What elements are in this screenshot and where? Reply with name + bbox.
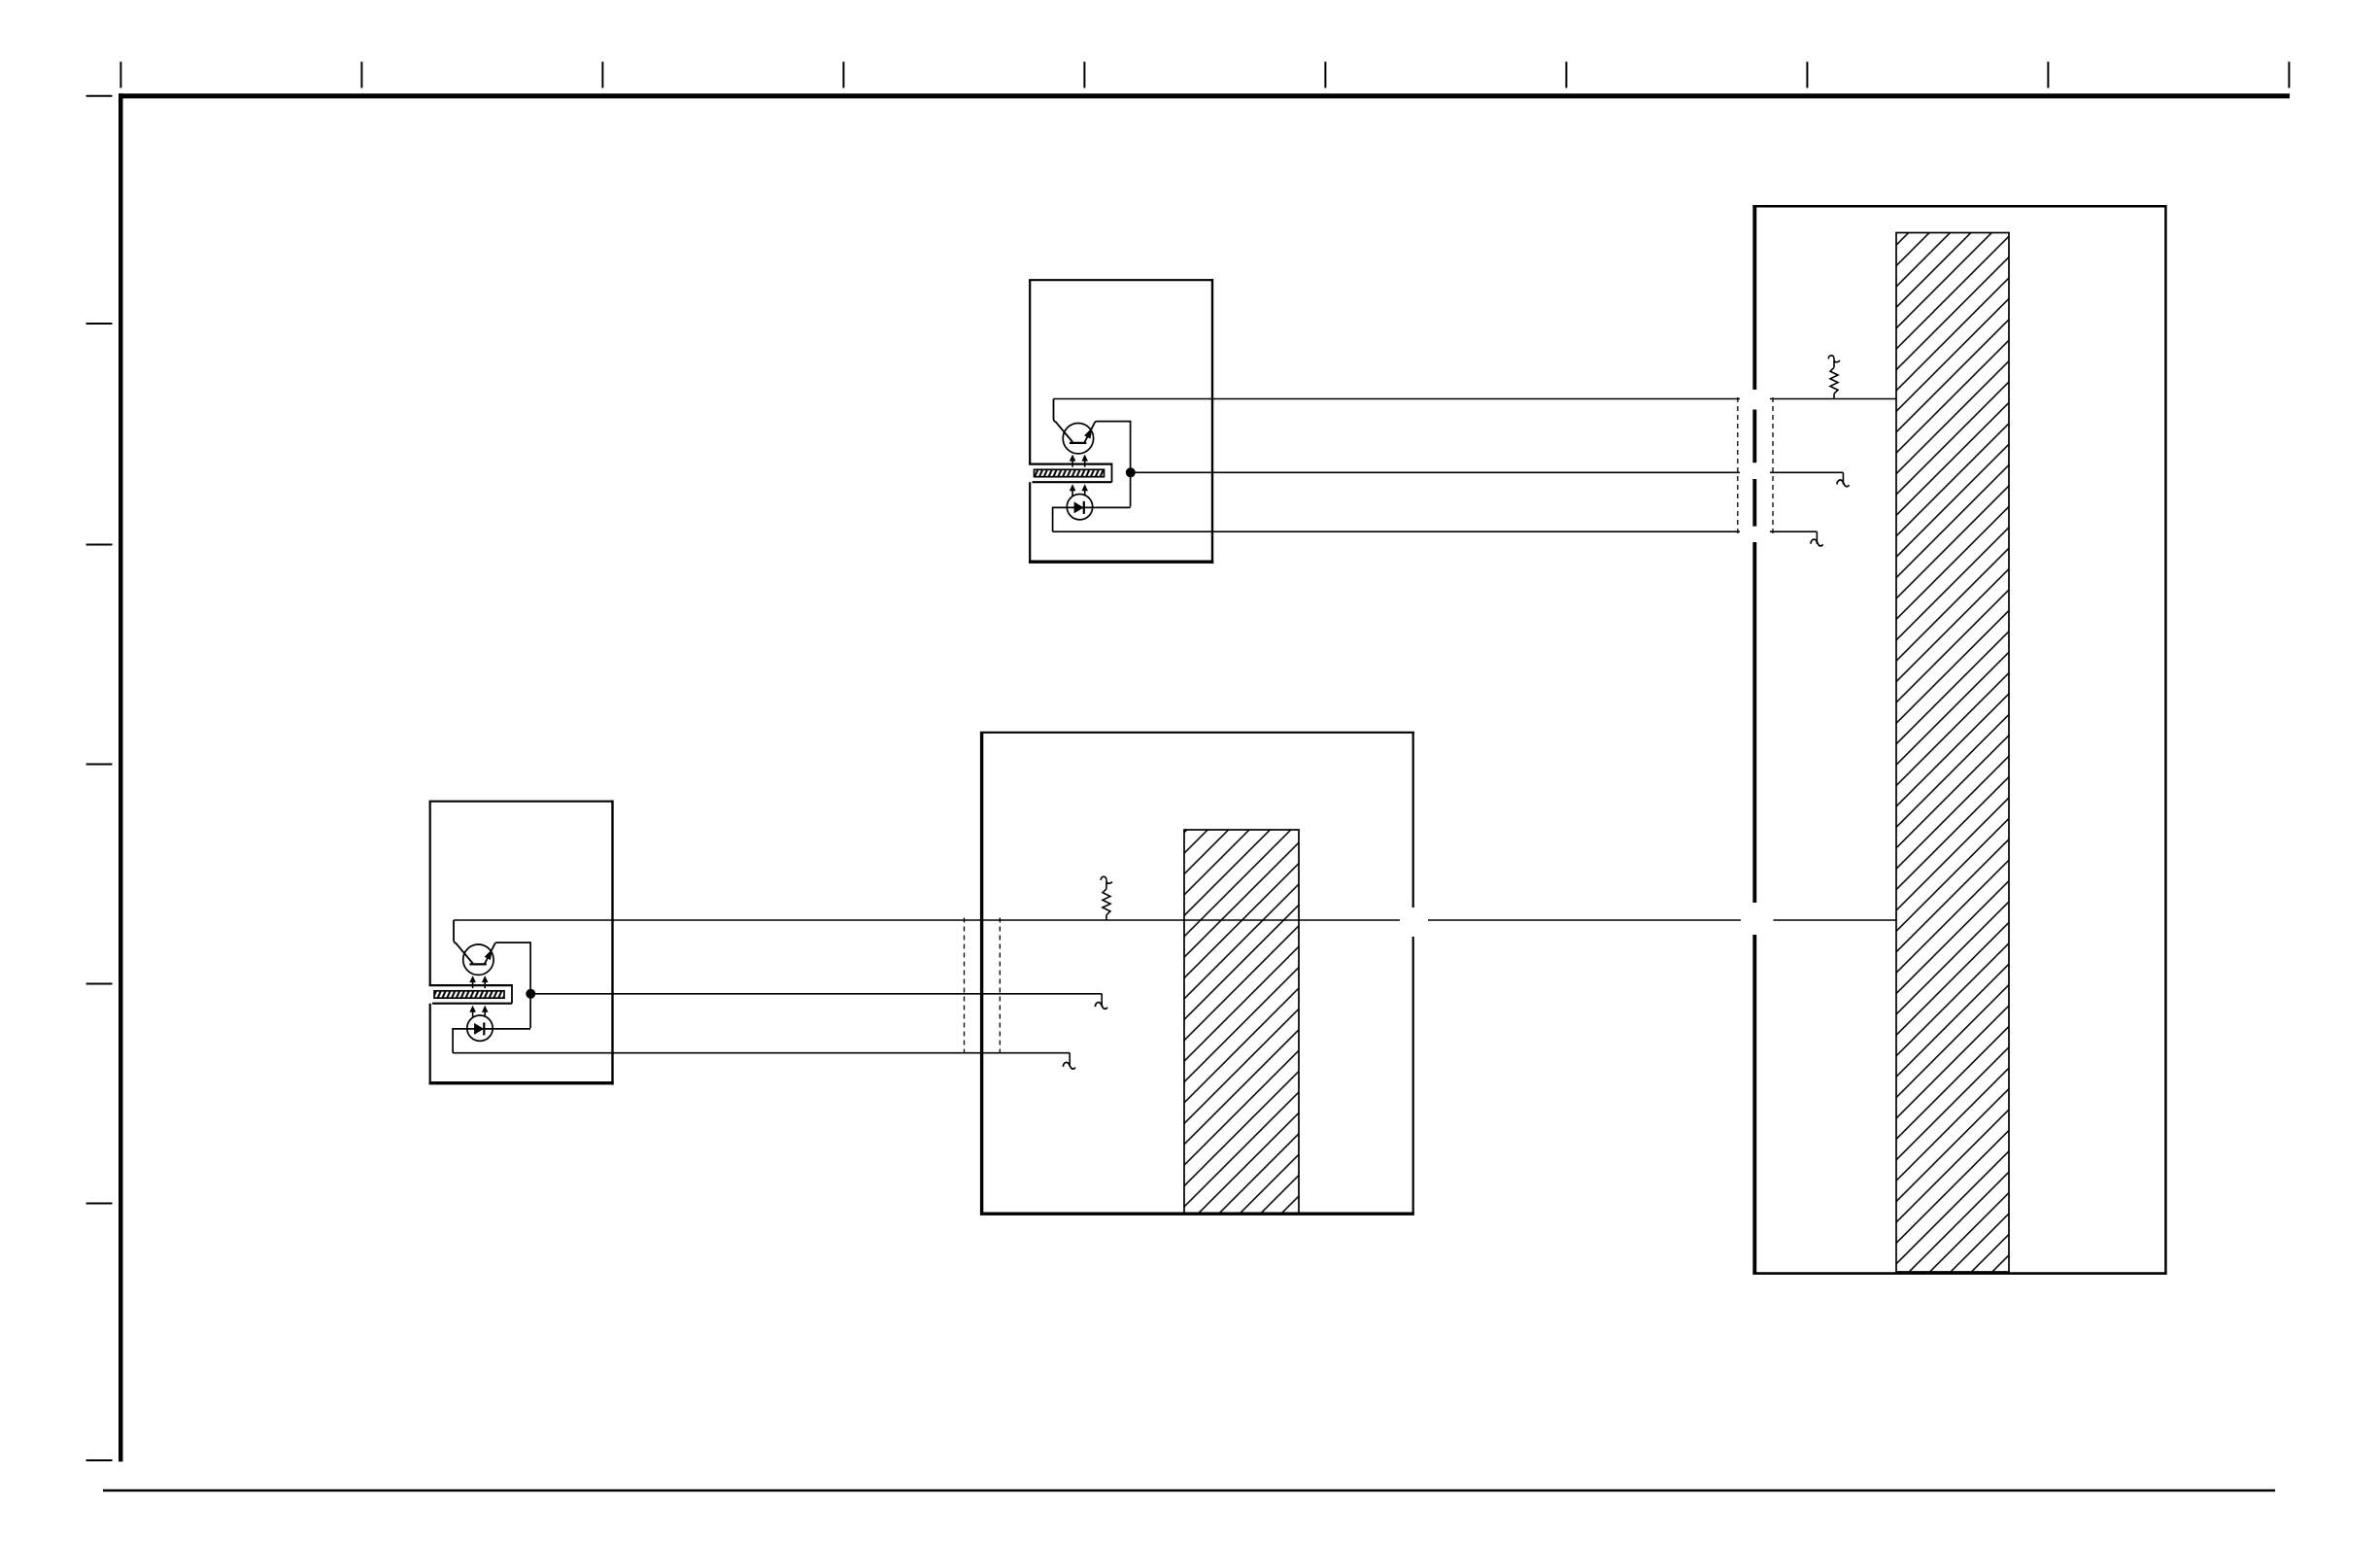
hatched bar inside middle board xyxy=(1184,830,1299,1214)
connector (dashed) at right board left edge xyxy=(1738,397,1773,535)
middle board outline xyxy=(980,732,1414,1216)
shutter slit bar of PH1 (hatched) xyxy=(1035,469,1105,476)
phototransistor of PH2 xyxy=(454,920,495,975)
right board outline xyxy=(1752,206,2166,1275)
wire: PH2 common node into middle board, open end xyxy=(530,994,1107,1010)
LED of PH2 xyxy=(453,1015,530,1041)
resistor on collector wire (right board) xyxy=(1828,356,1840,399)
wire: PH1 common node into right board, open end xyxy=(1131,472,1850,486)
emitter-to-node wire inside PH1 xyxy=(1095,422,1130,507)
light arrows onto phototransistor (PH1) xyxy=(1070,455,1088,467)
wire: PH1 collector to right board xyxy=(1054,398,1897,400)
photo-interrupter PH1 housing outline xyxy=(1029,279,1213,564)
photo-interrupter PH2 housing outline xyxy=(429,801,614,1085)
LED anode lead inside PH1 xyxy=(1052,507,1054,532)
LED anode lead inside PH2 xyxy=(452,1028,454,1053)
wire: PH1 LED anode into right board, open end xyxy=(1053,531,1823,546)
wire: PH2 LED anode into middle board, open end xyxy=(453,1053,1075,1069)
emitter-to-node wire inside PH2 xyxy=(495,942,530,1028)
junction node of PH1 xyxy=(1126,467,1136,477)
hatched bar inside right board xyxy=(1896,233,2009,1273)
light arrows onto phototransistor (PH2) xyxy=(469,976,488,988)
wire: PH2 collector through middle board to right board xyxy=(454,919,1897,921)
light arrows from LED (PH1) xyxy=(1070,484,1088,496)
connector (dashed) at middle board left edge xyxy=(965,918,1001,1056)
phototransistor of PH1 xyxy=(1054,399,1096,454)
resistor on PH2 collector wire (middle board) xyxy=(1101,876,1112,920)
LED of PH1 xyxy=(1053,495,1131,520)
junction node of PH2 xyxy=(526,989,535,999)
light arrows from LED (PH2) xyxy=(469,1006,488,1017)
shutter slit bar of PH2 (hatched) xyxy=(434,991,504,998)
